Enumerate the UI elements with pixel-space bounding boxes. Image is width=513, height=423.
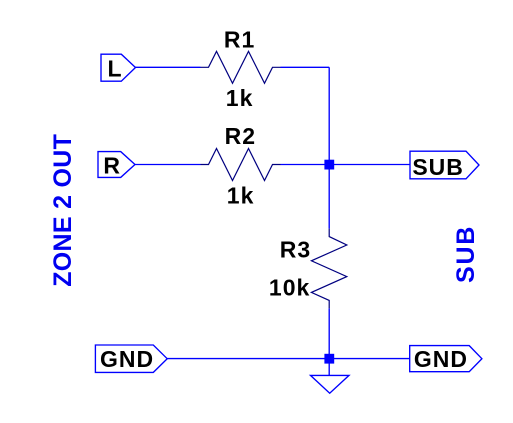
- wire GND row: [167, 358, 410, 360]
- wire junction to R3: [328, 165, 330, 229]
- port flag GND right: [410, 346, 482, 372]
- svg-text:R3: R3: [280, 237, 311, 263]
- svg-text:1k: 1k: [227, 182, 255, 208]
- svg-text:L: L: [107, 55, 121, 81]
- port flag GND left: [95, 345, 167, 372]
- svg-text:SUB: SUB: [452, 225, 480, 283]
- wire R1 to node A: [281, 66, 330, 68]
- resistor R2: [201, 149, 281, 181]
- resistor R3: [311, 229, 346, 309]
- junction at ground node: [324, 354, 334, 364]
- svg-text:ZONE 2 OUT: ZONE 2 OUT: [49, 134, 77, 287]
- wire L to R1: [136, 66, 201, 68]
- wire junction to ground symbol: [328, 359, 330, 376]
- svg-text:1k: 1k: [226, 85, 254, 111]
- svg-text:SUB: SUB: [412, 154, 464, 180]
- port flag L: [101, 54, 136, 81]
- svg-text:R: R: [103, 152, 120, 178]
- wire node A down to junction: [328, 67, 330, 164]
- port flag R: [98, 152, 135, 178]
- svg-text:R2: R2: [225, 123, 256, 149]
- resistor R1: [201, 51, 281, 83]
- port flag SUB: [410, 151, 479, 179]
- svg-text:GND: GND: [414, 346, 468, 372]
- svg-text:10k: 10k: [269, 275, 310, 301]
- junction at node SUB: [324, 160, 334, 170]
- wire R2 to SUB flag: [281, 164, 411, 166]
- svg-text:GND: GND: [100, 346, 154, 372]
- wire R3 to ground row: [328, 308, 330, 358]
- svg-text:R1: R1: [224, 27, 255, 53]
- ground: [311, 375, 350, 393]
- wire R to R2: [135, 164, 201, 166]
